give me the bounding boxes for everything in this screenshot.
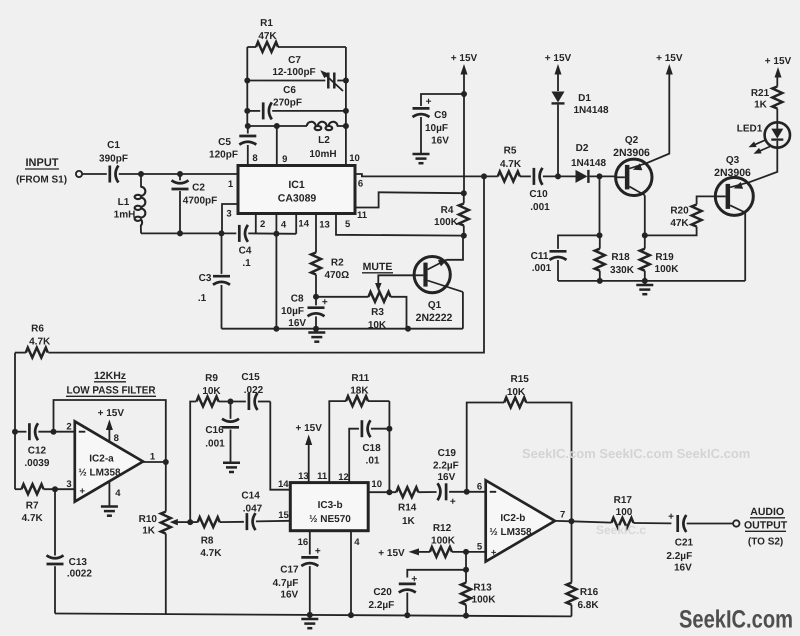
junction C2 top (177, 171, 183, 177)
pin 14 label (298, 219, 309, 230)
wire bottom ground rail (55, 614, 572, 617)
wire IC1 pin 5 to R4 (336, 214, 464, 236)
wire top-right vertical (345, 47, 347, 166)
wire ground-side rail y233 (141, 232, 296, 234)
wire IC1 pin 14 (295, 214, 297, 234)
capacitor C12 (15, 423, 75, 469)
junction pin10 node (386, 489, 392, 495)
wire top-left vertical (246, 47, 248, 126)
junction C7 left (244, 78, 250, 84)
wire IC1 pin 2 (255, 214, 257, 234)
pin 3 label (226, 209, 231, 220)
power +15V (Q2) (647, 53, 683, 163)
junction C7 right (343, 78, 349, 84)
power +15V (D1) (545, 53, 572, 91)
pin 4 label (281, 220, 287, 231)
junction C18 right (386, 426, 392, 432)
ground below C17 (301, 615, 318, 628)
pin 10 label (371, 479, 382, 490)
junction C11 branch (597, 232, 603, 238)
op-amp U2a LM358 (66, 421, 156, 501)
junction R2/C8/R3 (313, 294, 319, 300)
junction op-amp A output (163, 459, 169, 465)
pin 2 label (260, 219, 265, 230)
label 12KHz LOW PASS FILTER (66, 370, 156, 397)
capacitor C17 (273, 531, 321, 615)
wire Q3 emitter to LED (749, 148, 777, 182)
resistor R6 (15, 324, 51, 358)
resistor R21 (751, 87, 782, 123)
faint watermark row 1 (522, 446, 750, 461)
transistor Q2 2N3906 (613, 135, 652, 196)
resistor R15 (467, 374, 572, 521)
wire Q2 collector (644, 195, 646, 235)
pin 9 label (282, 154, 287, 165)
resistor R19 (640, 235, 679, 281)
junction Q2 collector/R19 (642, 232, 648, 238)
resistor R9 (197, 373, 246, 407)
resistor R20 (645, 196, 716, 235)
wire op-amp A feedback (54, 400, 166, 462)
wire op-amp A pin4 gnd (108, 482, 110, 506)
junction rail328 R3 (405, 326, 411, 332)
wire Q1 collector to rail (462, 292, 464, 329)
wire pin5 node down (465, 552, 467, 570)
wire Q1 emitter to R4 node (447, 236, 464, 260)
ground op-amp A (101, 507, 118, 516)
resistor R16 (567, 521, 600, 616)
pin 14 label (278, 479, 289, 490)
junction C13 branch (52, 486, 58, 492)
junction C9 branch (461, 91, 467, 97)
diode D2 1N4148 (571, 143, 616, 183)
wire R11/C18/pin10 vertical (388, 401, 390, 492)
pin 10 label (349, 153, 360, 164)
junction rail C20 (404, 612, 410, 618)
resistor R4 (434, 193, 469, 235)
junction C6 right (343, 108, 349, 114)
node INPUT terminal (16, 157, 82, 186)
diode D1 1N4148 (552, 92, 609, 177)
pin 13 label (319, 219, 330, 230)
ground below C8 (308, 329, 325, 342)
transistor Q3 2N3906 (714, 155, 753, 215)
wire IC1 pin 6 output (355, 174, 498, 176)
capacitor C13 (47, 489, 93, 613)
capacitor C16 (205, 402, 239, 462)
capacitor C19 (433, 448, 486, 507)
op-amp U2b LM358 (477, 480, 565, 561)
pin 15 label (278, 510, 289, 521)
capacitor C3 (198, 233, 230, 328)
capacitor C15 (241, 372, 270, 410)
capacitor C6 (247, 85, 346, 119)
junction R4 top (461, 190, 467, 196)
junction rail328 C8 (313, 326, 319, 332)
watermark SeekIC.com (679, 606, 793, 634)
junction L2 rail left (245, 123, 251, 129)
potentiometer R10 (139, 462, 191, 614)
wire R9 branch vertical (190, 402, 196, 523)
junction C16 branch (228, 399, 234, 405)
junction L1 top (138, 171, 144, 177)
wire op-amp B output (555, 520, 572, 522)
wire C1 to IC1 pin 1 (119, 173, 238, 175)
pin 6 label (358, 179, 363, 190)
wire rail y281 (558, 280, 745, 282)
IC U3 NE570 (290, 483, 368, 531)
power +15V (R21) (765, 56, 792, 87)
resistor R2 (311, 214, 349, 297)
resistor R12 (430, 523, 486, 557)
LED LED1 (737, 122, 790, 153)
resistor R18 (595, 235, 635, 281)
capacitor C14 (241, 490, 290, 530)
resistor R14 (396, 487, 436, 527)
pin 5 label (345, 219, 351, 230)
junction rail R13 (463, 613, 469, 619)
wire IC1 pin 9 (276, 126, 278, 166)
inductor L2 (248, 122, 346, 160)
junction C6 left (244, 108, 250, 114)
wire IC1 pin 3 (222, 204, 238, 233)
transistor Q1 2N2222 (414, 257, 463, 325)
pin 16 label (298, 537, 309, 548)
capacitor C8 (281, 294, 328, 330)
capacitor C4 (239, 225, 252, 269)
IC U1 CA3089 (238, 166, 355, 214)
junction rail pin4 (348, 612, 354, 618)
pin 1 label (228, 179, 234, 190)
capacitor C11 (531, 235, 600, 281)
junction pin4 rail (273, 231, 279, 237)
capacitor C20 (369, 570, 466, 615)
node MUTE (362, 261, 415, 292)
junction C3/pin3 (219, 230, 225, 236)
power +15V (op-amp A) (98, 408, 125, 442)
pin 4 label (354, 537, 360, 548)
wire pin6 node down-left (48, 176, 484, 352)
junction pin9 top (274, 123, 280, 129)
resistor R13 (461, 570, 496, 616)
junction feedback/pin2 (51, 429, 57, 435)
capacitor C18 (349, 420, 389, 482)
resistor R11 (329, 373, 389, 482)
ground below rail281 (636, 281, 653, 294)
resistor R1 (247, 18, 346, 52)
junction R10 wiper/R9 (187, 519, 193, 525)
pin 13 label (298, 471, 309, 482)
junction L2 rail right (343, 123, 349, 129)
node AUDIO OUTPUT terminal (733, 506, 788, 548)
wire left input vertical (14, 353, 16, 490)
junction pin5 node (463, 549, 469, 555)
power +15V (IC3 pin13) (295, 423, 322, 483)
resistor R8 (190, 517, 244, 559)
junction rail281 R18 (597, 278, 603, 284)
wire op-amp A output (143, 461, 166, 463)
junction R4 bottom (461, 233, 467, 239)
junction rail281 gnd (642, 278, 648, 284)
wire pin 10 (368, 491, 396, 493)
junction C2 bottom (177, 230, 183, 236)
inductor L1 (114, 174, 146, 233)
wire IC3 pin 4 (350, 531, 352, 615)
potentiometer R3 (316, 292, 407, 331)
junction C19/R15 (464, 489, 470, 495)
ground below C9 (413, 154, 430, 163)
capacitor C2 (172, 174, 218, 233)
junction op-amp B output (569, 518, 575, 524)
resistor R17 (572, 495, 672, 528)
junction R18 branch (597, 173, 603, 179)
resistor R5 (498, 146, 531, 182)
capacitor C21 (666, 512, 733, 574)
power +15V (C9) (451, 53, 478, 193)
junction rail328 pin4 (273, 326, 279, 332)
capacitor C1 (99, 140, 128, 183)
ground rail y328 (222, 328, 463, 330)
wire IC1 pin 11 to +15V (355, 192, 464, 207)
junction C12 branch (12, 429, 18, 435)
faint watermark row 2 (596, 523, 646, 537)
junction D1 bottom (555, 173, 561, 179)
pin 12 label (338, 472, 349, 483)
capacitor C9 (413, 94, 465, 153)
pin 11 label (357, 210, 368, 221)
resistor R7 (15, 484, 75, 524)
junction rail C17 (307, 612, 313, 618)
junction C20 branch (463, 567, 469, 573)
power +15V (R12) arrow left (378, 548, 430, 559)
capacitor C5 (209, 126, 256, 166)
wire R18 vertical (599, 176, 601, 235)
trimmer capacitor C7 (247, 55, 346, 91)
pin 11 label (317, 471, 328, 482)
pin 8 label (252, 153, 257, 164)
wire input to C1 (82, 173, 107, 175)
junction pin6/R6 branch (481, 173, 487, 179)
capacitor C10 (529, 168, 575, 213)
wire Q3 collector (744, 213, 746, 281)
ground below C16 (223, 463, 240, 472)
wire C15 to pin 14 (270, 402, 290, 490)
wire IC1 pin 4 (275, 214, 277, 329)
